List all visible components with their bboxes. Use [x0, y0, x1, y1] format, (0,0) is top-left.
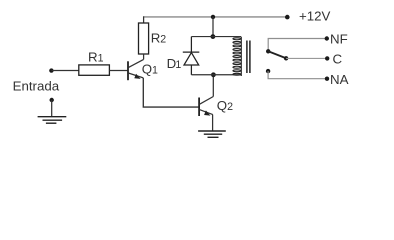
svg-text:+12V: +12V	[299, 9, 331, 24]
wire top rail to top junction	[212, 17, 214, 37]
wire diode top to relay top	[191, 36, 241, 38]
wire diode bottom to relay bottom	[191, 74, 241, 76]
node input terminal dot	[49, 68, 53, 72]
svg-text:R2: R2	[151, 31, 167, 46]
node arm end dot	[284, 56, 288, 60]
wire input to R1	[51, 70, 78, 72]
svg-text:R1: R1	[88, 49, 104, 64]
wire Q1 emitter down and right to Q2 base	[143, 78, 199, 107]
node bottom junction diode-relay-collector	[211, 72, 216, 77]
wire NF corner	[268, 39, 327, 52]
wire R1 to Q1 base	[109, 70, 127, 72]
wire R2 bottom stub	[143, 54, 145, 59]
svg-text:Entrada: Entrada	[13, 78, 60, 93]
node C terminal dot	[325, 56, 329, 60]
relay coil K1	[233, 37, 241, 76]
svg-text:Q2: Q2	[217, 98, 233, 113]
resistor R1	[79, 65, 110, 75]
svg-text:C: C	[333, 51, 343, 66]
wire R2 top stub	[143, 16, 145, 23]
relay switch arm	[268, 51, 286, 58]
node pivot dot	[266, 49, 270, 53]
node junction top rail to relay branch	[211, 15, 215, 19]
node entrada ground dot	[50, 98, 54, 102]
wire Q2 collector to relay bottom	[212, 75, 214, 97]
svg-text:NA: NA	[330, 72, 349, 87]
resistor R2	[139, 23, 149, 54]
transistor Q2	[199, 97, 213, 117]
node NA terminal dot	[325, 77, 329, 81]
node NF terminal dot	[325, 36, 329, 40]
node +12V terminal dot	[285, 15, 290, 20]
node NA contact dot	[266, 69, 270, 73]
ground Q2 emitter earth	[198, 131, 226, 137]
svg-text:Q1: Q1	[142, 61, 158, 76]
wire Q2 emitter to ground	[212, 115, 214, 131]
transistor Q1	[128, 59, 144, 80]
svg-text:NF: NF	[330, 32, 348, 47]
ground input earth	[38, 117, 67, 124]
svg-text:D1: D1	[167, 56, 182, 71]
wire C line	[286, 57, 327, 59]
diode D1	[183, 37, 200, 75]
node top junction diode-relay	[211, 34, 216, 39]
wire NA corner	[268, 71, 327, 79]
wire top +12V rail	[144, 16, 288, 18]
wire entrada ground stub	[51, 100, 53, 116]
relay core bars	[247, 41, 250, 74]
